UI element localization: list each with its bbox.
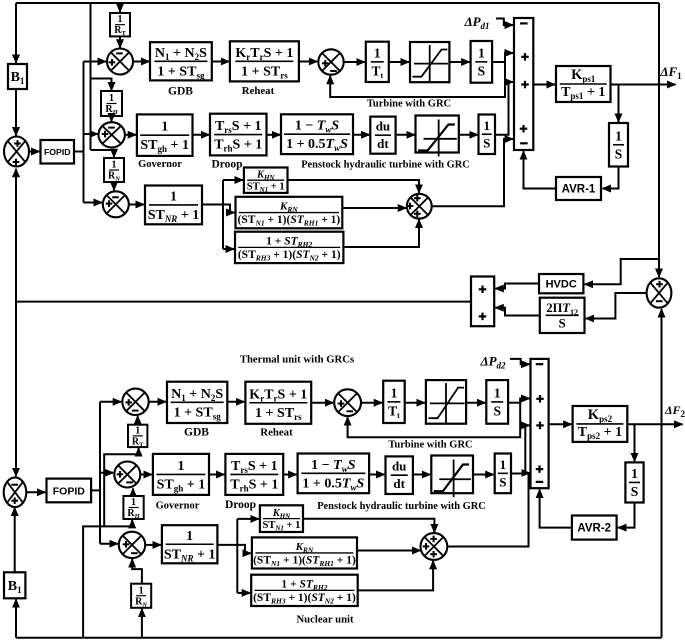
wire Governor2 to Droop2 [209,474,224,476]
wire RH2 to nuclear adder [343,220,419,248]
svg-text:S: S [478,63,486,78]
gain 1/RT area2 [128,425,147,449]
gain 1/RH area2 [123,496,143,520]
wire thermal to main summer [505,53,513,62]
gain B1 area2 [4,572,25,598]
limiter GRC thermal area2 [426,380,466,424]
svg-text:Tps1​ + 1: Tps1​ + 1 [561,85,605,101]
block du/dt area1 [370,117,395,154]
wire FOPID2 distribution riser [99,402,101,544]
wire to KHN2 block [237,518,259,520]
svg-text:ΔPd2​: ΔPd2​ [479,354,506,371]
wire hydro summer to Governor [125,134,136,136]
svg-text:Kr​Tr​S + 1: Kr​Tr​S + 1 [249,387,307,403]
block KHN area2 [260,505,303,532]
wire AVR-2 to main summer2 [540,490,572,528]
wire to KHN block [223,179,243,181]
wire nuclear summer to STNR [129,204,144,206]
svg-text:Reheat: Reheat [242,85,275,97]
wire thermal summer2 to GDB2 [149,401,166,403]
svg-text:1: 1 [478,45,485,60]
wire KRN to nuclear adder [342,207,406,209]
svg-text:dt: dt [377,136,389,151]
wire ΔF2 up to tie summer [661,309,663,638]
wire 2ΠT12/S to tie adder box [495,308,540,316]
wire 1/RH to hydro summer [111,116,113,122]
wire nuclear summer2 to STNR2 [145,544,161,546]
wire B1 area2 to ACE2 [14,508,16,573]
block Penstock area1 [281,114,353,154]
wire 1/RN to nuclear summer [113,182,115,190]
summer turbine area1 [318,49,343,74]
wire 1/S thermal2 output [508,402,520,404]
wire Reheat to turbine summer [299,61,317,63]
wire GRC feedback to turbine summer [330,62,505,97]
wire GRC hydro2 to 1/S hydro2 [473,474,494,476]
wire B1 to ACE1 summer [15,89,17,136]
block KHN area1 [244,168,288,195]
gain B1 area1 [8,64,27,89]
block 1/STNR area2 [162,525,218,563]
block Penstock area2 [298,454,370,494]
wire AVR-1 to main summer [524,151,557,188]
summer hydro area2 [114,462,140,488]
svg-text:1: 1 [631,466,638,481]
limiter GRC thermal area1 [410,42,449,82]
wire main summer to Kps1 [533,84,555,86]
wire HVDC to tie adder box [495,284,539,289]
block 1/STNR area1 [145,186,202,225]
svg-text:Trh​S + 1: Trh​S + 1 [230,477,278,493]
wire KRN2 to nuclear adder2 [357,550,421,552]
wire 1/S thermal output [492,61,505,63]
svg-text:1: 1 [500,457,507,472]
wire turbine summer2 to 1/Tt2 [361,402,382,404]
summer nuclear area1 [103,191,129,217]
wire ΔF1 to 1/RT [119,3,121,12]
svg-text:GDB: GDB [184,427,209,439]
wire Penstock2 to du/dt2 [369,474,384,476]
block 1/S thermal area1 [471,41,493,83]
block Reheat area1 [230,41,299,81]
svg-text:Trh​S + 1: Trh​S + 1 [214,138,262,154]
svg-text:ΔF1​: ΔF1​ [659,64,682,81]
wire ΔF1 down to tie summer [658,3,660,277]
wire ΔF2 into 1/RN2 [141,609,143,638]
wire Penstock to du/dt [353,134,370,136]
summer nuclear area2 [119,532,145,558]
wire ΔF1 tap to HVDC [585,259,659,284]
svg-text:Governor: Governor [138,159,182,170]
svg-text:1: 1 [186,529,193,544]
wire ΔF1 droop feed riser [90,3,92,150]
wire du/dt to GRC limiter hydro [396,134,415,136]
wire GRC hydro to 1/S [459,134,478,136]
svg-text:ΔF2​: ΔF2​ [664,403,685,419]
wire 1/RT to thermal summer [119,36,121,47]
wire GDB2 to Reheat2 [227,401,244,403]
svg-text:(STN1​ + 1)(STRH1​ + 1): (STN1​ + 1)(STRH1​ + 1) [253,554,356,568]
wire tie summer to 2ΠT12/S [586,293,647,319]
wire Droop2 to Penstock2 [283,474,296,476]
wire FOPID2 to thermal summer2 [100,401,121,403]
wire STNR2 output [217,544,238,546]
wire ΔF1 output [611,84,676,86]
wire tie adder output to left [16,301,471,303]
wire FOPID2 to hydro summer2 [100,472,113,474]
wire ΔF2 droop feed riser area2 [83,526,132,637]
wire to KRN2 block [237,545,251,553]
wire FOPID1 to thermal summer [84,61,107,63]
block AVR-2 [572,516,617,540]
svg-text:Thermal unit with GRCs: Thermal unit with GRCs [240,354,354,366]
wire ACE1 to FOPID [29,151,40,153]
svg-text:Kr​Tr​S + 1: Kr​Tr​S + 1 [235,46,293,62]
block Governor area1 [137,114,193,155]
block HVDC [539,274,583,293]
svg-text:1: 1 [391,385,398,400]
svg-text:1: 1 [177,459,184,474]
wire bottom ΔF2 feedback line [16,637,662,639]
wire hydro2 to main summer2 [511,425,530,473]
wire main summer2 to Kps2 [549,423,572,425]
wire FOPID1 to hydro summer [84,133,98,135]
svg-text:Governor: Governor [156,501,200,512]
svg-text:Trs​S + 1: Trs​S + 1 [215,119,262,135]
svg-text:1: 1 [131,497,136,508]
wire top ΔF1 feedback line [16,2,659,4]
wire ΔF2 droop feed thermal2 [104,454,138,526]
wire ΔF2 into 1/RH2 [131,520,133,527]
wire tie signal down to ACE2 [15,302,17,477]
wire to RH22 block [237,592,250,594]
wire GRC to 1/S thermal [449,61,469,63]
svg-text:S: S [493,403,501,418]
block AVR-1 [556,177,601,200]
svg-text:(STN1​ + 1)(STRH1​ + 1): (STN1​ + 1)(STRH1​ + 1) [238,214,341,228]
block RH2 area1 [235,232,343,263]
block du/dt area2 [386,456,413,494]
wire KHN to nuclear adder [288,180,420,193]
wire Droop to Penstock [267,134,281,136]
summer turbine area2 [334,389,361,416]
summer tie-line [647,278,672,307]
wire KHN2 to nuclear adder2 [303,519,434,533]
wire nuclear distribution riser2 [236,519,238,593]
svg-text:(STRH3​ + 1)(STN2​ + 1): (STRH3​ + 1)(STN2​ + 1) [253,592,356,606]
svg-text:FOPID: FOPID [53,485,86,497]
svg-text:Droop: Droop [225,499,256,511]
summer nuclear adder area2 [421,533,448,560]
wire Governor to Droop [193,134,210,136]
svg-text:N1​ + N2​S: N1​ + N2​S [155,46,207,62]
wire 1/Tt2 to GRC limiter2 [405,402,425,404]
block Kps2 area2 [573,406,628,442]
wire ΔF2 into B1 area2 [15,599,17,638]
block Kps1 area1 [556,66,611,102]
block KRN area2 [252,537,357,568]
summer ACE2 [4,478,27,508]
block GDB area2 [167,382,227,423]
svg-text:1: 1 [161,120,168,135]
wire ΔPd2 into main summer2 [510,359,530,364]
wire tie signal up to ACE1 [15,169,17,302]
wire thermal2 to main summer2 [520,399,529,403]
summer tie adder box [471,277,494,327]
wire thermal summer to GDB [133,61,149,63]
block 1/Tt area2 [383,381,405,423]
wire ACE2 to FOPID2 [26,491,45,493]
block 2ΠT12/S [540,298,585,333]
svg-text:dt: dt [393,476,405,491]
svg-text:AVR-2: AVR-2 [577,523,611,535]
wire 1/RN2 to nuclear summer2 [132,559,142,584]
block 1/Tt area1 [366,42,389,82]
gain 1/RT area1 [110,13,130,37]
block Reheat area2 [245,382,311,424]
block Droop area1 [210,114,267,156]
svg-text:Penstock hydraulic turbine w: Penstock hydraulic turbine with GRC [317,501,486,512]
wire GRC feedback to turbine summer2 [348,403,521,438]
svg-text:1: 1 [615,128,622,143]
summer hydro area1 [99,122,125,147]
svg-text:1: 1 [135,425,140,436]
wire du/dt2 to GRC hydro2 [413,474,430,476]
wire ΔF1 to 1/RN [91,150,115,157]
svg-text:HVDC: HVDC [546,279,577,291]
wire Kps1 to 1/S feedback [618,85,620,123]
svg-text:Nuclear unit: Nuclear unit [296,614,354,626]
svg-text:Turbine with GRC: Turbine with GRC [367,99,451,110]
svg-text:1: 1 [118,14,123,25]
wire 1/Tt to GRC limiter [389,61,409,63]
block Governor area2 [153,454,209,495]
block 1/S hydro area1 [479,115,496,155]
svg-text:1: 1 [109,93,114,104]
svg-text:1: 1 [484,118,491,133]
block 1/S feedback area1 [609,123,628,167]
block Droop area2 [225,454,283,495]
block RH2 area2 [251,575,358,606]
block 1/S feedback area2 [625,462,643,502]
summer thermal area2 [122,389,148,415]
block 1/S thermal area2 [486,380,508,424]
wire ΔF2 output [627,423,682,425]
wire hydro summer2 to Governor2 [140,474,152,476]
wire to KRN block [223,205,235,213]
gain 1/RH area1 [101,91,122,116]
limiter GRC hydro area2 [431,456,473,498]
wire RH22 to nuclear adder2 [358,561,433,591]
summer main area1 [514,18,533,150]
gain 1/RN area2 [131,584,151,609]
svg-text:S: S [499,474,506,489]
svg-text:Droop: Droop [211,159,242,171]
wire FOPID1 output [74,151,84,153]
svg-text:Reheat: Reheat [260,427,293,439]
wire FOPID1 distribution riser [83,62,85,203]
wire Reheat2 to turbine summer2 [311,402,333,404]
wire to RH2 block [223,248,234,250]
svg-text:1: 1 [374,45,381,60]
controller FOPID area2 [47,479,92,503]
svg-text:1 − Tw​S: 1 − Tw​S [311,458,356,474]
svg-text:(STRH3​ + 1)(STN2​ + 1): (STRH3​ + 1)(STN2​ + 1) [238,249,341,263]
wire nuclear distribution riser [222,180,224,249]
summer ACE1 [4,137,29,167]
wire ΔF1 into B1 [15,3,17,63]
wire ΔF2 into 1/RT2 [138,448,140,454]
svg-text:1 − Tw​S: 1 − Tw​S [295,119,340,135]
wire STNR output [202,204,224,206]
svg-text:1: 1 [139,585,144,596]
svg-text:du: du [376,119,390,134]
svg-text:Tps2​ + 1: Tps2​ + 1 [578,425,622,441]
svg-text:Trs​S + 1: Trs​S + 1 [231,459,278,475]
block GDB area1 [150,42,212,80]
wire 1/S to AVR-1 [603,167,619,189]
wire 1/RH2 to hydro summer2 [132,488,134,496]
wire 1/S2 to AVR-2 [618,503,635,528]
svg-text:GDB: GDB [168,86,193,98]
wire nuclear output to main summer [432,139,513,206]
svg-text:AVR-1: AVR-1 [562,184,596,196]
wire FOPID2 to nuclear summer2 [100,543,118,545]
svg-text:1: 1 [170,189,177,204]
wire ΔPd1 into main summer [496,19,513,26]
wire Kps2 to 1/S feedback2 [634,424,636,461]
wire GDB to Reheat [212,61,230,63]
summer nuclear adder area1 [407,194,432,219]
block KRN area1 [236,197,343,229]
svg-text:FOPID: FOPID [44,147,71,157]
svg-text:du: du [392,459,406,474]
gain 1/RN area1 [104,158,124,183]
svg-text:S: S [615,146,623,161]
summer main area2 [531,359,549,488]
wire FOPID2 output [91,489,101,491]
wire hydro to main summer [495,82,513,135]
wire turbine summer to 1/Tt [344,61,365,63]
limiter GRC hydro area1 [416,116,459,157]
wire 1/RT2 to thermal summer2 [137,416,139,425]
wire ΔF1 to 1/RH [91,79,112,91]
block 1/S hydro area2 [495,454,511,494]
svg-text:S: S [631,484,639,499]
summer thermal area1 [107,49,133,75]
svg-text:1: 1 [494,385,501,400]
svg-text:S: S [483,135,490,150]
svg-text:ΔPd1​: ΔPd1​ [463,14,489,31]
wire nuclear2 output to main summer2 [447,473,530,547]
svg-text:Penstock hydraulic turbine w: Penstock hydraulic turbine with GRC [301,160,470,171]
wire FOPID1 to nuclear summer [84,202,103,204]
svg-text:1: 1 [112,160,117,171]
svg-text:N1​ + N2​S: N1​ + N2​S [171,387,223,403]
svg-text:S: S [559,315,566,330]
controller FOPID area1 [41,140,75,164]
svg-text:Turbine with GRC: Turbine with GRC [388,440,472,451]
wire GRC2 to 1/S thermal2 [466,402,485,404]
